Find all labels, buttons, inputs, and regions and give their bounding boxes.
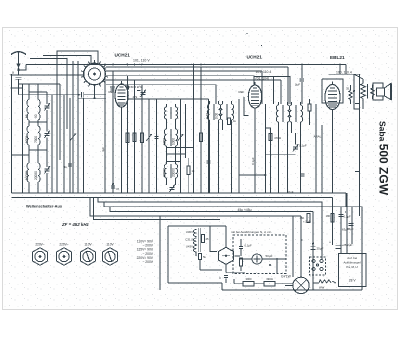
- svg-text:63μF: 63μF: [342, 228, 349, 232]
- svg-text:20000: 20000: [34, 171, 38, 180]
- svg-text:7000: 7000: [34, 136, 38, 143]
- svg-text:U30V: U30V: [186, 230, 193, 234]
- svg-text:1000: 1000: [163, 138, 167, 145]
- svg-text:35: 35: [346, 87, 350, 91]
- svg-text:101, 110.4: 101, 110.4: [256, 70, 272, 74]
- svg-text:45: 45: [206, 237, 209, 241]
- svg-text:90: 90: [34, 114, 38, 118]
- svg-text:ZF = 452 kHz: ZF = 452 kHz: [61, 222, 90, 227]
- svg-text:(01, 104): (01, 104): [256, 77, 270, 81]
- svg-text:10000: 10000: [25, 171, 29, 180]
- svg-text:47: 47: [116, 187, 120, 191]
- svg-text:0μF: 0μF: [295, 83, 300, 87]
- svg-text:47kΩ: 47kΩ: [274, 136, 282, 140]
- svg-text:0,1μF: 0,1μF: [245, 244, 252, 248]
- svg-text:Auf. bei: Auf. bei: [347, 256, 357, 260]
- svg-text:Wellenschalter-Aus: Wellenschalter-Aus: [26, 204, 62, 209]
- svg-text:a: a: [12, 71, 14, 75]
- svg-text:47k: 47k: [133, 95, 138, 99]
- svg-text:UCH21: UCH21: [115, 53, 131, 58]
- svg-text:+25,2μF: +25,2μF: [342, 243, 353, 247]
- svg-text:10: 10: [25, 114, 29, 118]
- svg-text:WW: WW: [319, 286, 325, 290]
- svg-text:U43V: U43V: [186, 245, 193, 249]
- svg-text:3900: 3900: [246, 277, 252, 281]
- svg-text:0,1μF: 0,1μF: [344, 215, 351, 219]
- svg-text:101, 110 V: 101, 110 V: [133, 59, 150, 63]
- svg-text:REF: REF: [239, 90, 245, 94]
- svg-text:0,1μF: 0,1μF: [299, 144, 307, 148]
- svg-text:20000: 20000: [163, 168, 167, 177]
- svg-text:390Ω: 390Ω: [266, 277, 273, 281]
- svg-text:mit bei Ausführungen N, d, cd: mit bei Ausführungen N, d, cd: [231, 230, 271, 234]
- svg-text:20000: 20000: [172, 168, 176, 177]
- svg-text:Ausführungen: Ausführungen: [343, 261, 361, 265]
- svg-text:220V~: 220V~: [59, 243, 68, 247]
- svg-text:C31.2: C31.2: [185, 238, 193, 242]
- svg-text:220V~: 220V~: [35, 243, 44, 247]
- svg-text:+,5μF: +,5μF: [303, 220, 311, 224]
- svg-text:REF: REF: [109, 90, 115, 94]
- svg-text:0.1μF: 0.1μF: [251, 157, 255, 165]
- svg-text:GY1W: GY1W: [281, 275, 292, 279]
- svg-text:0.00: 0.00: [215, 113, 219, 119]
- svg-text:28 V: 28 V: [349, 279, 357, 283]
- svg-text:180: 180: [326, 214, 331, 218]
- svg-text:UCH21: UCH21: [247, 55, 263, 60]
- svg-text:110V: 110V: [84, 243, 92, 247]
- svg-text:110V: 110V: [106, 243, 114, 247]
- svg-text:EBL21: EBL21: [330, 55, 345, 60]
- svg-text:+: +: [329, 241, 331, 245]
- svg-text:1000: 1000: [172, 138, 176, 145]
- svg-text:1000: 1000: [25, 136, 29, 143]
- svg-text:FM 2 kHz: FM 2 kHz: [129, 85, 143, 89]
- svg-text:50μF: 50μF: [266, 254, 273, 258]
- svg-text:45μ +45μ: 45μ +45μ: [238, 208, 252, 212]
- svg-text:Saba 500 ZGW: Saba 500 ZGW: [377, 121, 391, 196]
- svg-text:4μF: 4μF: [101, 147, 105, 152]
- svg-text:~ 200V: ~ 200V: [142, 260, 153, 264]
- svg-text:Pa, M, Lf: Pa, M, Lf: [346, 265, 358, 269]
- svg-text:C: C: [219, 276, 221, 280]
- svg-text:25μF: 25μF: [317, 247, 324, 251]
- svg-text:ARAL: ARAL: [314, 135, 322, 139]
- svg-text:0.10: 0.10: [206, 113, 210, 119]
